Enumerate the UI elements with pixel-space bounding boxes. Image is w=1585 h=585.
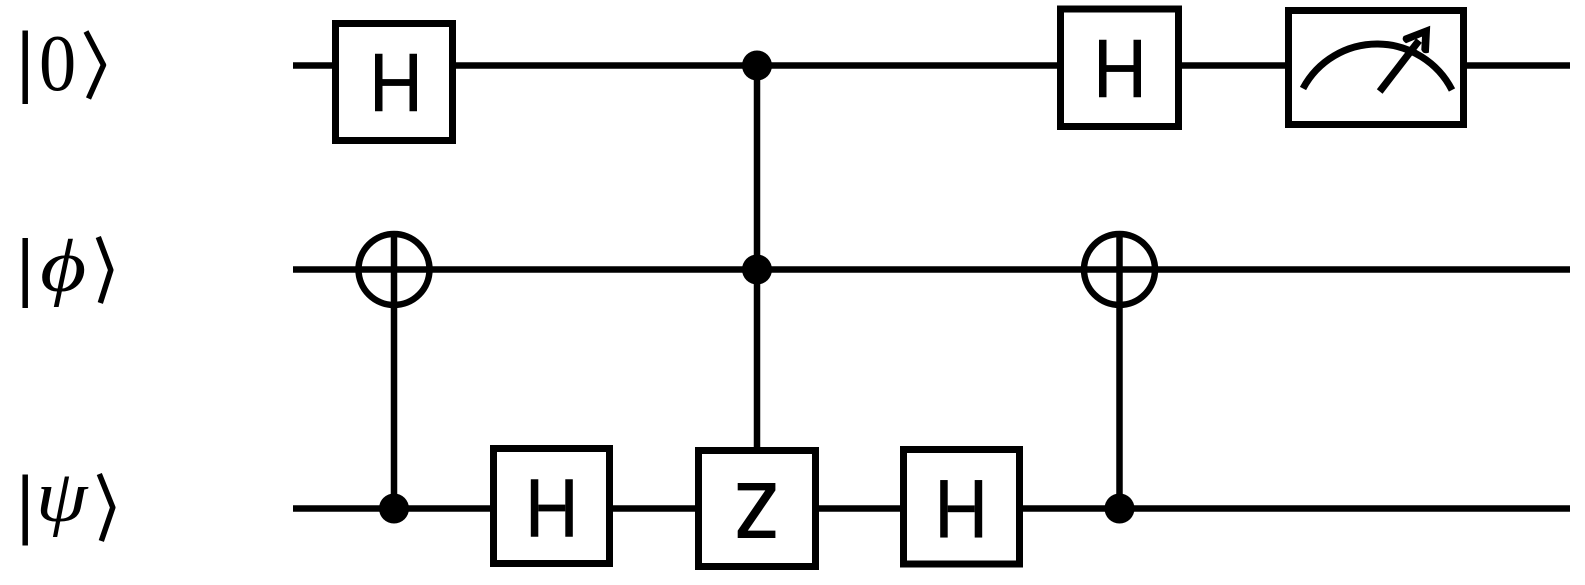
measurement meter box — [1289, 11, 1464, 125]
CNOT1 control dot q2 — [379, 494, 409, 524]
CNOT2 vertical wire — [1116, 232, 1123, 509]
measurement meter arc — [1303, 44, 1452, 90]
wire q0 segment b — [456, 62, 1057, 69]
CNOT2 control dot q2 — [1105, 494, 1135, 524]
svg-text:ψ: ψ — [36, 455, 89, 537]
wire q2 segment c — [819, 505, 900, 512]
CZ control dot q0 — [742, 51, 772, 81]
gate H1 letter — [375, 54, 417, 112]
wire q0 segment a — [293, 62, 332, 69]
gate H1 box — [336, 24, 453, 141]
measurement meter arrowhead — [1403, 26, 1431, 53]
gate H4 box — [904, 450, 1020, 565]
wire q2 segment b — [613, 505, 695, 512]
gate H3 letter — [531, 479, 573, 537]
measurement meter needle — [1380, 41, 1419, 92]
qubit label |phi> — [25, 225, 111, 308]
gate Z box — [699, 451, 816, 567]
CZ vertical wire — [754, 66, 761, 448]
qubit label |psi> — [25, 455, 113, 545]
wire q1 — [293, 266, 1570, 273]
gate H4 letter — [940, 480, 982, 538]
wire q0 segment d — [1467, 62, 1570, 69]
gate Z letter — [738, 483, 776, 538]
wire q2 segment a — [293, 505, 490, 512]
CNOT2 target circle — [1084, 234, 1155, 305]
CNOT1 target circle — [359, 234, 430, 305]
wire q2 segment d — [1023, 505, 1570, 512]
svg-text:ϕ: ϕ — [40, 225, 86, 308]
CNOT1 vertical wire — [391, 232, 398, 509]
qubit label |0> — [25, 19, 103, 108]
gate H3 box — [494, 449, 610, 564]
svg-text:0: 0 — [39, 19, 76, 108]
gate H2 box — [1061, 9, 1179, 127]
CZ control dot q1 — [742, 255, 772, 285]
gate H2 letter — [1099, 40, 1141, 98]
wire q0 segment c — [1182, 62, 1285, 69]
